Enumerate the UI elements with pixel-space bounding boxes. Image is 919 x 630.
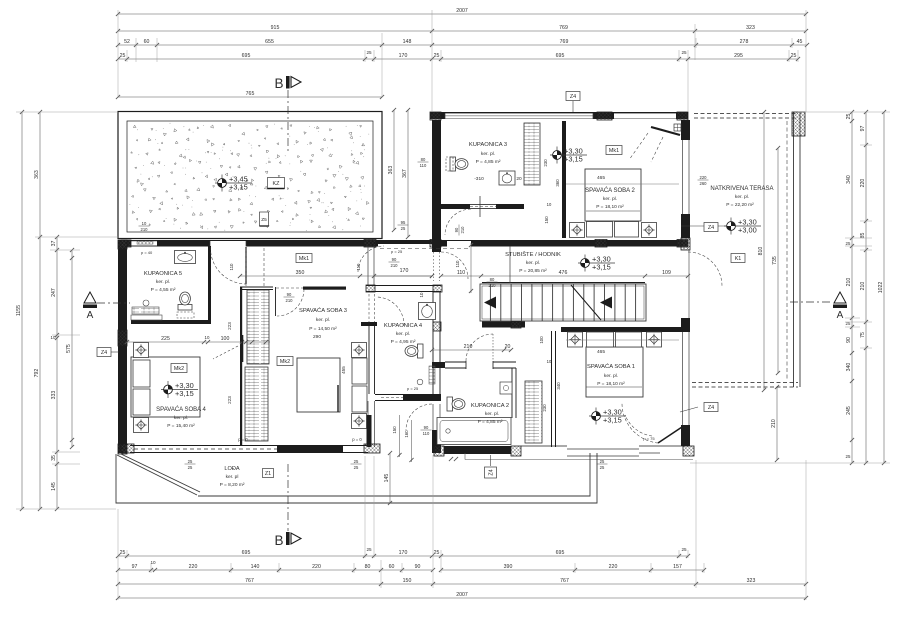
svg-text:SPAVAĆA SOBA 4: SPAVAĆA SOBA 4 [156, 406, 206, 413]
svg-text:97: 97 [132, 564, 138, 570]
kup3 wardrobe [524, 123, 540, 185]
loggia outline [116, 453, 597, 503]
top-left roof terrace outline [118, 112, 382, 239]
svg-text:915: 915 [271, 25, 280, 31]
svg-text:P = 8,20 m²: P = 8,20 m² [220, 482, 245, 488]
svg-text:148: 148 [403, 39, 412, 45]
svg-text:Z1: Z1 [265, 471, 271, 477]
svg-text:NATKRIVENA TERASA: NATKRIVENA TERASA [710, 186, 773, 192]
svg-text:90: 90 [287, 292, 292, 297]
svg-text:SPAVAĆA SOBA 2: SPAVAĆA SOBA 2 [585, 187, 635, 194]
kup5 window in band [131, 241, 157, 246]
svg-text:210: 210 [860, 282, 866, 291]
left outer wall [118, 246, 127, 453]
soba3 bed [297, 358, 340, 412]
svg-text:230: 230 [542, 404, 547, 412]
svg-text:25: 25 [791, 53, 797, 59]
svg-text:37: 37 [51, 241, 57, 247]
svg-text:+3,15: +3,15 [229, 182, 248, 191]
svg-text:695: 695 [556, 550, 565, 556]
bottom wall right block [444, 446, 511, 454]
svg-text:ker. pl.: ker. pl. [735, 194, 749, 200]
dims inside covered terrace [698, 110, 781, 462]
stairs [480, 284, 646, 321]
svg-text:225: 225 [161, 336, 170, 342]
svg-text:769: 769 [560, 39, 569, 45]
svg-text:245: 245 [846, 406, 852, 415]
svg-text:247: 247 [51, 288, 57, 297]
svg-text:10: 10 [547, 202, 552, 207]
label KZ [268, 178, 285, 189]
svg-text:109: 109 [662, 270, 671, 276]
svg-text:170: 170 [400, 268, 409, 274]
kup4 door arc [376, 297, 404, 326]
svg-text:223: 223 [227, 396, 232, 404]
kup2/soba1 divider [551, 331, 553, 447]
svg-text:390: 390 [504, 564, 513, 570]
svg-text:210: 210 [460, 226, 465, 234]
svg-text:150: 150 [544, 216, 549, 224]
dimension 765 above terrace [118, 96, 382, 98]
soba3 door arc [277, 289, 304, 316]
central strip left wall [367, 246, 369, 285]
svg-text:ker. pl.: ker. pl. [485, 411, 499, 417]
svg-text:P = 4,85 m²: P = 4,85 m² [476, 159, 501, 165]
svg-text:223: 223 [227, 322, 232, 330]
svg-text:90: 90 [415, 564, 421, 570]
svg-text:25: 25 [600, 465, 605, 470]
svg-text:P = 15,40 m²: P = 15,40 m² [167, 423, 195, 429]
kup3 door arc [445, 209, 471, 235]
spavaca soba 4 [131, 357, 200, 417]
svg-text:ker. pl: ker. pl [226, 474, 239, 480]
svg-text:210: 210 [846, 278, 852, 287]
stair dim line [441, 275, 688, 277]
svg-text:P = 4,95 m²: P = 4,95 m² [391, 339, 416, 345]
svg-text:+3,00: +3,00 [738, 225, 757, 234]
svg-text:p = 0: p = 0 [352, 437, 362, 442]
svg-text:Z4: Z4 [101, 350, 107, 356]
svg-text:170: 170 [399, 550, 408, 556]
svg-text:Z4: Z4 [489, 469, 495, 475]
svg-text:ker. pl.: ker. pl. [156, 279, 170, 285]
svg-text:Z5: Z5 [261, 217, 267, 223]
svg-text:ker. pl.: ker. pl. [604, 373, 618, 379]
svg-text:220: 220 [700, 175, 708, 180]
svg-text:220: 220 [860, 179, 866, 188]
svg-text:25: 25 [366, 50, 372, 55]
svg-text:735: 735 [772, 256, 778, 265]
svg-text:210: 210 [771, 419, 777, 428]
svg-text:Mk2: Mk2 [174, 366, 184, 372]
svg-text:340: 340 [846, 175, 852, 184]
svg-text:25: 25 [681, 547, 687, 552]
svg-text:157: 157 [673, 564, 682, 570]
kupaonica 2 [447, 397, 465, 411]
bottom wall left block [130, 445, 368, 447]
svg-text:25: 25 [846, 321, 851, 326]
terrace level marker +3,45 [215, 182, 252, 184]
svg-text:25: 25 [846, 454, 851, 459]
svg-text:360: 360 [555, 179, 560, 187]
right dimension chains [846, 110, 887, 465]
svg-text:ker. pl.: ker. pl. [174, 415, 188, 421]
soba1 door [658, 427, 682, 443]
svg-text:1155: 1155 [16, 305, 22, 316]
svg-text:ker. pl.: ker. pl. [396, 331, 410, 337]
svg-text:110: 110 [455, 260, 460, 268]
central strip right wall [432, 120, 441, 252]
svg-text:210: 210 [489, 283, 497, 288]
svg-text:90: 90 [424, 425, 429, 430]
svg-text:695: 695 [242, 53, 251, 59]
extension guide lines left/right [16, 112, 890, 509]
svg-text:+3,15: +3,15 [592, 262, 611, 271]
svg-text:+3,15: +3,15 [603, 415, 622, 424]
main horizontal wall band y238 [118, 240, 688, 247]
svg-text:10: 10 [419, 292, 424, 297]
spavaca soba 2 [585, 169, 641, 221]
svg-text:10: 10 [547, 359, 552, 364]
svg-text:60: 60 [144, 39, 150, 45]
stipple texture [131, 124, 369, 228]
svg-text:575: 575 [66, 344, 72, 353]
svg-text:363: 363 [34, 170, 40, 179]
svg-text:ker. pl.: ker. pl. [316, 317, 330, 323]
bottom dimension chains [116, 547, 808, 600]
section marker A left [84, 292, 96, 303]
svg-text:p = 25: p = 25 [391, 249, 403, 254]
svg-text:20: 20 [516, 176, 522, 182]
svg-text:A: A [837, 310, 844, 321]
svg-text:1022: 1022 [878, 282, 884, 294]
svg-text:80: 80 [421, 157, 426, 162]
piers on band [122, 240, 132, 247]
soba2 door [651, 127, 680, 135]
svg-text:340: 340 [846, 363, 852, 372]
svg-text:25: 25 [681, 50, 687, 55]
svg-text:210: 210 [286, 298, 294, 303]
dims right of terrace strip [388, 108, 428, 239]
svg-text:110: 110 [420, 163, 427, 168]
svg-text:110: 110 [457, 270, 465, 276]
svg-text:25: 25 [434, 53, 440, 59]
svg-text:810: 810 [758, 247, 764, 256]
door arcs strip [441, 252, 468, 279]
svg-text:KUPAONICA 3: KUPAONICA 3 [469, 142, 507, 148]
svg-text:Mk1: Mk1 [299, 256, 309, 262]
svg-text:340: 340 [556, 382, 561, 390]
soba4 door leaf [242, 335, 244, 362]
kupaonica4 top and bottom walls [366, 285, 441, 287]
svg-text:P = 14,50 m²: P = 14,50 m² [309, 326, 337, 332]
svg-text:363: 363 [388, 166, 394, 175]
svg-text:+3,15: +3,15 [564, 154, 583, 163]
svg-text:K1: K1 [735, 256, 742, 262]
kup2 wardrobe [525, 381, 542, 443]
spavaca soba 1 [586, 347, 643, 397]
svg-text:350: 350 [296, 270, 305, 276]
svg-text:25: 25 [188, 465, 193, 470]
svg-text:LOĐA: LOĐA [224, 466, 240, 472]
svg-text:85: 85 [860, 233, 866, 239]
kup2 sink [500, 382, 512, 394]
svg-text:2007: 2007 [456, 592, 468, 598]
section marker A right [834, 292, 846, 303]
outside step line [465, 459, 693, 461]
svg-text:80: 80 [365, 564, 371, 570]
svg-text:220: 220 [609, 564, 618, 570]
svg-text:90: 90 [454, 227, 459, 232]
svg-text:278: 278 [740, 39, 749, 45]
svg-text:145: 145 [384, 474, 390, 483]
top wall of north-east block [430, 112, 688, 119]
svg-text:140: 140 [251, 564, 260, 570]
svg-text:465: 465 [597, 175, 605, 181]
svg-text:25: 25 [366, 547, 372, 552]
kup3/soba2 divider [562, 121, 566, 238]
svg-text:p = 25: p = 25 [407, 386, 419, 391]
svg-text:210: 210 [141, 227, 149, 232]
svg-text:90: 90 [846, 337, 852, 343]
svg-text:P = 18,10 m²: P = 18,10 m² [596, 204, 624, 210]
svg-text:SPAVAĆA SOBA 1: SPAVAĆA SOBA 1 [587, 363, 635, 370]
svg-text:97: 97 [860, 126, 866, 132]
svg-text:45: 45 [797, 39, 803, 45]
svg-text:P = 4,55 m²: P = 4,55 m² [151, 287, 176, 293]
kupaonica3 bottom wall [441, 204, 524, 209]
closet niche dashes [245, 248, 247, 286]
svg-text:-310: -310 [474, 176, 484, 182]
svg-text:ker. pl.: ker. pl. [603, 196, 617, 202]
svg-text:25: 25 [401, 226, 406, 231]
svg-text:P = 20,85 m²: P = 20,85 m² [519, 268, 547, 274]
svg-text:100: 100 [539, 336, 544, 344]
svg-text:323: 323 [747, 578, 756, 584]
svg-text:367: 367 [402, 169, 408, 178]
svg-text:767: 767 [245, 578, 254, 584]
svg-text:10: 10 [150, 560, 156, 565]
svg-text:765: 765 [246, 91, 255, 97]
svg-text:230: 230 [543, 159, 548, 167]
svg-text:+3,15: +3,15 [175, 389, 194, 398]
svg-text:145: 145 [51, 482, 57, 491]
svg-text:P = 4,85 m²: P = 4,85 m² [478, 419, 503, 425]
kupaonica5 walls [208, 246, 211, 324]
svg-text:20: 20 [505, 344, 511, 350]
svg-text:Z4: Z4 [708, 405, 714, 411]
svg-text:25: 25 [846, 114, 852, 120]
svg-text:25: 25 [354, 459, 359, 464]
svg-text:STUBIŠTE / HODNIK: STUBIŠTE / HODNIK [505, 251, 561, 258]
svg-text:ker. pl.: ker. pl. [481, 151, 495, 157]
svg-text:B: B [274, 533, 283, 548]
label Z5 [260, 212, 269, 226]
wardrobe column [247, 290, 269, 364]
svg-text:792: 792 [34, 369, 40, 378]
kup2 top wall (thin partition) [445, 361, 516, 363]
svg-text:220: 220 [312, 564, 321, 570]
left dimension chains [16, 110, 74, 511]
svg-text:KZ: KZ [273, 181, 281, 187]
right outer wall with windows [681, 120, 690, 140]
svg-text:220: 220 [189, 564, 198, 570]
svg-text:333: 333 [51, 391, 57, 400]
hodnik labels [296, 254, 312, 263]
svg-text:60: 60 [389, 564, 395, 570]
svg-text:35: 35 [51, 455, 57, 461]
top dimension chains [116, 8, 809, 61]
svg-text:90: 90 [392, 257, 397, 262]
svg-text:KUPAONICA 5: KUPAONICA 5 [144, 271, 182, 277]
svg-text:SPAVAĆA SOBA 3: SPAVAĆA SOBA 3 [299, 307, 347, 314]
svg-text:25: 25 [354, 465, 359, 470]
svg-text:P = 18,10 m²: P = 18,10 m² [597, 381, 625, 387]
svg-text:Mk1: Mk1 [609, 148, 619, 154]
soba3 top wall [240, 286, 273, 288]
svg-text:B: B [274, 76, 283, 91]
svg-text:295: 295 [734, 53, 743, 59]
svg-text:Z4: Z4 [708, 225, 714, 231]
svg-text:p = 40: p = 40 [141, 250, 153, 255]
svg-text:80: 80 [490, 277, 495, 282]
svg-text:110: 110 [229, 263, 234, 271]
covered terrace outline [694, 113, 798, 115]
svg-text:25: 25 [120, 53, 126, 59]
svg-text:p = 75: p = 75 [643, 436, 655, 441]
svg-text:695: 695 [556, 53, 565, 59]
svg-text:ker. pl.: ker. pl. [526, 260, 540, 266]
svg-text:476: 476 [559, 270, 568, 276]
svg-text:655: 655 [265, 39, 274, 45]
svg-text:10: 10 [142, 221, 147, 226]
svg-text:695: 695 [242, 550, 251, 556]
svg-text:455: 455 [341, 366, 346, 374]
svg-text:10: 10 [205, 335, 210, 340]
svg-text:75: 75 [860, 332, 866, 338]
extension guide lines top [118, 10, 806, 112]
kup2 bathtub [437, 418, 511, 445]
svg-text:Mk2: Mk2 [280, 359, 290, 365]
extension guide lines bottom [118, 455, 806, 600]
svg-text:210: 210 [391, 263, 399, 268]
svg-text:110: 110 [423, 431, 430, 436]
svg-text:260: 260 [700, 181, 708, 186]
soba3/soba4 divider wall [240, 287, 242, 445]
soba1 top wall [561, 327, 688, 332]
Z4 labels [111, 351, 119, 353]
svg-text:A: A [87, 310, 94, 321]
svg-text:25: 25 [600, 459, 605, 464]
svg-text:150: 150 [403, 578, 412, 584]
svg-text:465: 465 [597, 349, 605, 355]
svg-text:95: 95 [401, 220, 406, 225]
svg-text:2007: 2007 [456, 8, 468, 14]
stair-hall floor line [509, 246, 511, 283]
svg-text:25: 25 [846, 241, 851, 246]
terrace door arc to hall [688, 252, 722, 286]
kupaonica 5 door [210, 247, 246, 284]
svg-text:100: 100 [221, 336, 230, 342]
svg-text:160: 160 [404, 430, 409, 438]
svg-text:10: 10 [51, 335, 56, 340]
svg-text:KUPAONICA 2: KUPAONICA 2 [471, 403, 509, 409]
svg-text:KUPAONICA 4: KUPAONICA 4 [384, 323, 423, 329]
svg-text:290: 290 [313, 334, 321, 340]
label Z1 [263, 469, 274, 478]
svg-text:170: 170 [399, 53, 408, 59]
svg-text:767: 767 [560, 578, 569, 584]
svg-text:769: 769 [559, 25, 568, 31]
svg-text:25: 25 [120, 550, 126, 556]
svg-text:150: 150 [392, 426, 397, 434]
svg-text:323: 323 [746, 25, 755, 31]
svg-text:52: 52 [124, 39, 130, 45]
svg-text:25: 25 [188, 459, 193, 464]
corner vent box [674, 124, 681, 131]
svg-text:25: 25 [434, 550, 440, 556]
svg-text:Z4: Z4 [570, 94, 576, 100]
wall below stairs [482, 322, 525, 328]
svg-text:P = 22,20 m²: P = 22,20 m² [726, 202, 754, 208]
